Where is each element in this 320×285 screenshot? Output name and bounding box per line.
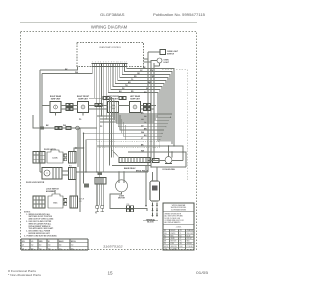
bottom horizontal wire with connectors xyxy=(110,192,147,212)
svg-text:TN: TN xyxy=(180,241,182,243)
svg-text:BLUE: BLUE xyxy=(187,235,191,237)
connector pairs below comb xyxy=(103,97,126,100)
wires conv motor xyxy=(119,172,124,183)
flat component bar xyxy=(112,150,150,163)
wires into module xyxy=(146,166,157,206)
svg-text:15: 15 xyxy=(107,270,113,275)
svg-text:SWITCH: SWITCH xyxy=(167,53,175,55)
vertical feeders left lower xyxy=(55,128,80,212)
svg-text:PK: PK xyxy=(164,243,166,245)
dashed panel boundary right xyxy=(162,70,187,181)
svg-text:WIRING DIAGRAM: WIRING DIAGRAM xyxy=(91,25,128,30)
feeder wire to group A xyxy=(33,148,84,155)
svg-text:1-3: 1-3 xyxy=(71,245,73,247)
lower rows bus left staircase xyxy=(84,97,173,184)
svg-text:OVEN TEMP CONTROL: OVEN TEMP CONTROL xyxy=(99,47,122,49)
convection motor B1 xyxy=(116,180,128,200)
connector pair J4 xyxy=(144,104,151,111)
surface unit SU2 right front xyxy=(78,102,89,121)
connector P1 pin comb xyxy=(92,62,128,67)
module pins with arrows xyxy=(153,203,158,216)
svg-text:P24: P24 xyxy=(127,204,130,206)
left group door latch: terminal grid xyxy=(33,152,45,164)
wires group B xyxy=(40,171,69,175)
connector on bake feed xyxy=(98,173,103,176)
svg-text:SHOWN FOR MODEL: SHOWN FOR MODEL xyxy=(171,207,187,209)
surface unit labels row xyxy=(50,95,141,100)
svg-text:WIRING SHOWN WITH: WIRING SHOWN WITH xyxy=(165,213,182,215)
svg-text:2-3: 2-3 xyxy=(39,245,41,247)
svg-text:BU: BU xyxy=(180,235,182,237)
cooling fan motor B2 xyxy=(162,157,175,171)
header rule xyxy=(20,21,197,23)
wires: center verticals down xyxy=(102,67,107,173)
svg-text:VT: VT xyxy=(180,238,182,240)
junction dots center xyxy=(101,115,107,119)
inline component left of fan xyxy=(153,159,160,163)
surface unit SU4 left rear xyxy=(130,102,141,113)
wires below surface units xyxy=(97,116,158,122)
right vertical bus from oven light xyxy=(144,52,155,172)
outer dashed border xyxy=(21,32,197,250)
spark module SM1 xyxy=(150,181,160,201)
svg-text:MOTOR: MOTOR xyxy=(118,198,125,200)
svg-text:LOCK: LOCK xyxy=(52,158,58,160)
svg-text:P12: P12 xyxy=(69,165,72,167)
verticals center low xyxy=(109,96,111,166)
bake element terminals xyxy=(96,206,104,209)
inline connector J5 on left bus xyxy=(55,127,71,130)
svg-text:GRN/YEL: GRN/YEL xyxy=(171,246,178,248)
wires: left bus verticals xyxy=(40,70,42,172)
svg-text:BROWN: BROWN xyxy=(171,241,177,243)
svg-text:SURF UNIT: SURF UNIT xyxy=(130,98,140,100)
svg-text:LBU: LBU xyxy=(180,246,183,248)
svg-text:5 - POWER CORD MUST BE GROUNDE: 5 - POWER CORD MUST BE GROUNDED. xyxy=(24,236,58,238)
svg-text:LIGHT: LIGHT xyxy=(164,62,170,64)
svg-text:YELLOW: YELLOW xyxy=(187,233,194,235)
right long rows to right edge xyxy=(97,146,186,167)
wires linking surface units xyxy=(42,106,156,110)
svg-text:BROIL RELAY: BROIL RELAY xyxy=(136,169,149,172)
connector pair J3 xyxy=(95,104,102,107)
svg-text:L1: L1 xyxy=(22,245,24,247)
svg-text:VIOLET: VIOLET xyxy=(187,238,192,240)
dashed box relay xyxy=(97,142,160,148)
svg-text:GN/YL: GN/YL xyxy=(164,246,169,248)
oven light DS1 xyxy=(151,58,170,66)
svg-text:LGY: LGY xyxy=(164,248,167,250)
svg-text:Publication No. 5995477115: Publication No. 5995477115 xyxy=(153,13,205,17)
wires: left fan from P1 xyxy=(40,67,99,178)
surface unit SU1 right rear xyxy=(50,102,61,116)
svg-text:BAKE RELAY: BAKE RELAY xyxy=(124,167,136,170)
bottom-left table xyxy=(21,239,88,250)
svg-text:WH: WH xyxy=(164,233,167,235)
svg-text:YL: YL xyxy=(180,233,182,235)
hatched connector C xyxy=(70,196,78,208)
hatched connector xyxy=(69,152,77,164)
svg-text:DOOR CLOSED. USE: DOOR CLOSED. USE xyxy=(165,218,180,220)
svg-text:BROIL: BROIL xyxy=(71,241,76,243)
svg-text:1-3: 1-3 xyxy=(39,248,41,250)
svg-text:BLOCK: BLOCK xyxy=(147,222,154,224)
bake element E1 xyxy=(97,184,104,206)
left group B: motor box xyxy=(42,168,62,180)
svg-text:COPPER WIRE ONLY FOR: COPPER WIRE ONLY FOR xyxy=(165,220,185,222)
junction dots rows xyxy=(159,117,171,141)
notes block xyxy=(24,211,58,237)
svg-text:SURF UNIT: SURF UNIT xyxy=(51,98,61,100)
svg-text:GY: GY xyxy=(164,238,166,240)
bake element top connector xyxy=(95,178,106,185)
latch switch box xyxy=(48,194,63,208)
svg-text:GREEN: GREEN xyxy=(187,243,192,245)
svg-text:GLGF388AS: GLGF388AS xyxy=(100,13,125,17)
connector pair J2 xyxy=(66,104,73,111)
left group C: terminal grid 2 xyxy=(33,196,45,208)
left horizontal bus xyxy=(33,115,97,128)
svg-text:PINK: PINK xyxy=(171,243,175,245)
connector small xyxy=(64,154,67,161)
svg-text:01/05: 01/05 xyxy=(196,271,208,275)
svg-text:BK: BK xyxy=(164,230,166,232)
electronic oven control U1 (dashed box) xyxy=(77,43,144,67)
svg-text:LT BLUE: LT BLUE xyxy=(187,246,193,248)
svg-text:T1: T1 xyxy=(95,213,97,215)
bus below flat component xyxy=(76,166,151,173)
connector pair bottom xyxy=(127,206,134,212)
oven light switch S1 xyxy=(148,50,179,56)
svg-text:-CODE-: -CODE- xyxy=(176,227,182,229)
svg-text:1-2: 1-2 xyxy=(59,248,61,250)
hatched connector B xyxy=(69,168,77,180)
lower rows labels xyxy=(141,113,147,141)
small inline component left of bake xyxy=(84,184,89,188)
svg-text:GN: GN xyxy=(180,243,182,245)
svg-text:WHITE: WHITE xyxy=(171,233,176,235)
svg-text:DOOR LATCH: DOOR LATCH xyxy=(44,148,57,151)
svg-text:1-2: 1-2 xyxy=(31,245,33,247)
connector small C xyxy=(64,199,67,206)
surface unit SU3 left front xyxy=(108,102,119,113)
svg-text:P2: P2 xyxy=(100,126,102,128)
svg-text:P9: P9 xyxy=(79,119,81,121)
svg-text:L2: L2 xyxy=(22,248,24,250)
svg-text:COOLING FAN: COOLING FAN xyxy=(162,168,175,171)
wires to cooling fan xyxy=(148,146,186,167)
left bus end junction xyxy=(40,127,44,130)
svg-text:DOOR LOCK MOTOR: DOOR LOCK MOTOR xyxy=(26,182,45,184)
wires: right fan staircase from P1 xyxy=(108,67,174,147)
legend box xyxy=(163,203,194,250)
wire labels right fan xyxy=(119,67,155,93)
svg-text:* Non-Illustrated Parts: * Non-Illustrated Parts xyxy=(8,273,42,277)
svg-text:316575102: 316575102 xyxy=(103,245,123,249)
door lock motor M1 xyxy=(47,150,63,163)
svg-text:SURF UNIT: SURF UNIT xyxy=(78,98,88,100)
